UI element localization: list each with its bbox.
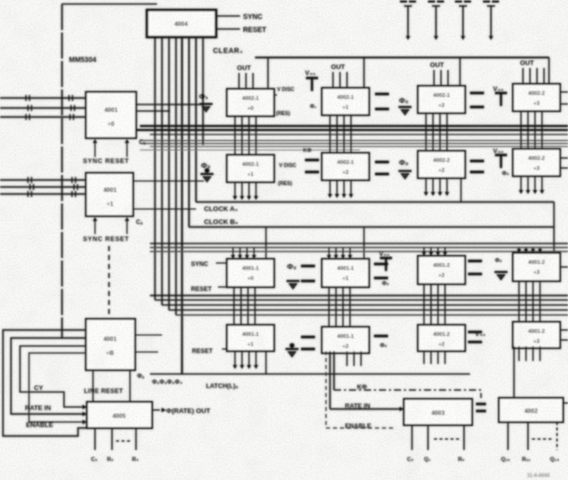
- divider U15 (4001-1 &#247;2): [322, 327, 369, 353]
- RESET output wire: [216, 28, 240, 30]
- Vdd left of U5: [493, 86, 507, 106]
- U13 right stub: [559, 266, 568, 268]
- row2 col2 output pins: [328, 180, 353, 198]
- U7 out a: [133, 180, 204, 182]
- phi2 label U3 right: [399, 96, 409, 105]
- U2 right label b: [276, 111, 290, 117]
- ground U7r2 right: [399, 171, 412, 179]
- U15 long wire a: [329, 351, 331, 409]
- row3 col3 input pins: [422, 248, 447, 257]
- U6r2 right label a: [279, 163, 297, 169]
- U9r2 right stub a: [561, 157, 568, 159]
- U14 bottom pins: [233, 351, 266, 374]
- U6 reset arrow 2: [125, 139, 129, 157]
- U9 pin labels: [91, 457, 139, 463]
- U9 pin 3: [135, 428, 137, 450]
- U2-U3 link dashes: [375, 94, 389, 109]
- bus into U7 line1: [0, 177, 86, 183]
- U17 bottom pins: [519, 346, 540, 361]
- U15 long wire b: [333, 351, 335, 390]
- KF label: [303, 148, 312, 154]
- U6 Ca label: [139, 140, 146, 146]
- rail O: [162, 304, 568, 306]
- U16-U17 dashes: [468, 332, 482, 342]
- clear rail drop to U5: [548, 58, 550, 85]
- U19 pin 1: [507, 422, 509, 450]
- output pin stub 16: [400, 2, 416, 41]
- output pin stub 13: [483, 2, 499, 41]
- counter U7: [86, 173, 133, 216]
- clear rail drop to U2: [267, 58, 269, 90]
- U18 pin 2: [427, 425, 429, 450]
- ground U14 right: [286, 343, 299, 357]
- row3 col2 input pins: [327, 248, 352, 260]
- divider U10 (4001-1 &#247;0): [227, 259, 274, 287]
- U9 pin dashes: [116, 440, 132, 442]
- RATE OUT label: [166, 408, 211, 415]
- rail B: [136, 129, 568, 131]
- clear rail drop to U4: [459, 58, 461, 87]
- U8 out b: [135, 351, 158, 353]
- pins row3 to row4 col4: [519, 281, 540, 322]
- U16 bottom pins: [424, 350, 445, 364]
- rail H-I drop to U13: [553, 202, 555, 253]
- U19 pin 3: [556, 422, 558, 450]
- CLOCK A label: [204, 206, 238, 213]
- U17 right stub a: [559, 329, 568, 331]
- ground U10 right: [287, 281, 300, 289]
- U2 right label a: [274, 87, 295, 95]
- phi2 U15 right: [380, 343, 388, 349]
- rail I: [189, 226, 554, 228]
- clear rail drop to U3: [363, 58, 365, 89]
- ENABLE label: [26, 422, 54, 429]
- U18-U19 link: [476, 404, 486, 411]
- U7 out b: [133, 208, 196, 210]
- divider U11 (4001-1 &#247;1): [322, 259, 369, 287]
- clear rail: [255, 57, 549, 59]
- phi2 U11 right: [382, 281, 390, 287]
- bus into U7 line2: [0, 184, 86, 190]
- clock bus line 3: [168, 38, 170, 310]
- clock bus line 2: [161, 38, 163, 305]
- clock bus line 1: [154, 38, 156, 300]
- divider U14 (4001-1 &#247;1): [227, 325, 274, 351]
- clock bus line 5: [181, 38, 183, 374]
- rail E: [140, 143, 568, 145]
- output pin stub 15: [428, 2, 444, 41]
- divider U3 (4002-1 &#247;1): [322, 88, 369, 115]
- RATE IN label br: [345, 403, 370, 410]
- row2 col3 output pins: [424, 178, 461, 202]
- phi2 left of U9r2: [502, 171, 510, 177]
- rail I drop to U11: [363, 227, 365, 259]
- SYNC RESET label 2: [83, 236, 129, 243]
- divider U16 (4001-2 &#247;2): [418, 325, 465, 351]
- U12-U13 dashes: [468, 261, 482, 274]
- rate counter U9: [87, 402, 152, 428]
- wire U17 to U19: [513, 346, 515, 398]
- CLEAR0 label: [213, 48, 243, 55]
- clock bus line 4: [175, 38, 177, 315]
- ground U12 right: [495, 272, 508, 280]
- LATCH label: [206, 383, 238, 390]
- chip boundary top edge: [62, 3, 157, 5]
- phi2 U12 right: [495, 258, 503, 264]
- U7r2 in dashes: [305, 160, 319, 172]
- U15 bottom pins: [347, 351, 361, 366]
- phi2 U10 right: [287, 262, 297, 271]
- rail C: [150, 134, 568, 136]
- Vdd left of U3: [305, 70, 318, 110]
- row3 col4 input pins: [517, 248, 542, 254]
- U19 pin 2: [527, 422, 529, 450]
- RESET label: [243, 27, 267, 34]
- U10-U11 dashes: [301, 266, 315, 281]
- output pin stub 14: [455, 2, 471, 41]
- clock bus line 8: [202, 38, 204, 145]
- U8r2 right dashes: [470, 161, 484, 172]
- bus into U7 line3: [0, 191, 86, 197]
- oscillator U1: [147, 10, 216, 37]
- divider U2 (4002-1 &#247;0): [227, 89, 274, 116]
- U8 pin a: [92, 370, 94, 402]
- OUT pins above U3: [331, 64, 347, 88]
- U18 pin dashes: [434, 438, 459, 440]
- feedback wire 1: [3, 330, 87, 436]
- U18 pin 3: [463, 425, 465, 450]
- clock bus line 6: [188, 38, 190, 227]
- row2 col4 output pins: [519, 176, 544, 194]
- pins row3 to row4 col1: [234, 287, 255, 325]
- divider U6 (4002-1 &#247;1): [227, 155, 274, 182]
- U17 right stub b: [559, 339, 568, 341]
- rail P: [169, 309, 568, 311]
- divider U17 (4001-2 &#247;3): [513, 322, 560, 348]
- divider U12 (4001-2 &#247;2): [418, 256, 465, 284]
- RATE IN label: [25, 405, 51, 412]
- rail L: [150, 251, 568, 253]
- bus into U6 line3: [0, 114, 86, 120]
- pins row3 to row4 col3: [424, 284, 445, 325]
- feedback wire 4: [29, 353, 87, 424]
- U9 rate out wire: [152, 408, 166, 412]
- Vdd U11 right: [379, 251, 392, 271]
- U9 pin 2: [111, 428, 113, 450]
- divider U8 (4002-2 &#247;2): [418, 151, 465, 178]
- phase labels P1-P4: [152, 380, 183, 386]
- U7 Ca label: [136, 220, 143, 226]
- U8 pin b: [129, 370, 131, 402]
- feedback wire 3: [20, 346, 87, 409]
- pins U2 to U6: [235, 116, 256, 155]
- latch U19: [499, 398, 563, 422]
- rail M: [150, 295, 568, 297]
- U11-U12 dashes: [374, 264, 388, 278]
- pins U5 to U9: [521, 111, 542, 149]
- U8 Fa label: [137, 374, 145, 380]
- U3-U4 link dashes: [470, 93, 484, 107]
- U18 pin 1: [411, 425, 413, 450]
- row2 col1 output pins: [233, 182, 258, 200]
- rail F: [150, 146, 568, 148]
- Vdd U17 left: [475, 331, 486, 338]
- U14-U15 dashes: [301, 337, 315, 349]
- U5 right stub a: [561, 91, 568, 93]
- Vdd left of U9r2: [493, 148, 507, 168]
- rail A: [140, 125, 568, 127]
- OUT pins above U2: [237, 65, 253, 89]
- counter U6: [86, 92, 136, 138]
- U15-U16 dashes: [374, 335, 388, 338]
- rail D: [140, 140, 568, 142]
- pins U4 to U8: [426, 113, 447, 151]
- U7r2 right dashes: [375, 162, 389, 174]
- rail Q: [176, 314, 568, 316]
- pins U3 to U7: [330, 115, 351, 153]
- divider U9 (4002-2 &#247;3): [513, 149, 560, 176]
- ground left of U6r2: [201, 168, 214, 182]
- dash-dot wire: [334, 390, 481, 398]
- row3 col1 input pins: [231, 248, 256, 260]
- U19 pin dashes: [532, 438, 554, 440]
- CY label: [34, 385, 44, 392]
- SYNC label: [243, 14, 262, 21]
- divider U13 (4001-2 &#247;3): [513, 253, 560, 281]
- SYNC output wire: [216, 15, 240, 17]
- rail I drop to U10: [265, 227, 267, 259]
- U6 out a: [136, 104, 204, 106]
- rail N: [155, 299, 568, 301]
- U6 reset arrow 1: [93, 139, 97, 157]
- U10 left stubs: [216, 263, 226, 287]
- RATE IN wire: [330, 407, 404, 411]
- CLOCK B label: [204, 219, 238, 226]
- pins row3 to row4 col2: [329, 287, 350, 327]
- rail R latch: [150, 373, 470, 375]
- U19 right stub: [563, 402, 568, 404]
- feedback wire 2: [11, 338, 87, 416]
- U6r2 right label b: [278, 181, 292, 187]
- SYNC RESET label 1: [83, 158, 129, 165]
- U19 pin labels: [501, 457, 560, 463]
- chip boundary left edge: [61, 4, 63, 338]
- chip part-number label: [69, 57, 96, 64]
- RESET label left of U14: [192, 348, 227, 355]
- KF label br: [357, 384, 368, 391]
- U7 reset arrow 2: [125, 217, 129, 234]
- rail J: [150, 243, 568, 245]
- bus into U6 line2: [0, 105, 86, 111]
- bus into U6 line1: [0, 95, 108, 101]
- U8 out a: [135, 334, 162, 336]
- OUT pins above U4: [430, 62, 448, 86]
- rail G: [140, 149, 360, 151]
- OUT pins above U5: [520, 60, 544, 84]
- LINE RESET label: [84, 388, 123, 395]
- chain continuation: [108, 246, 110, 319]
- U9r2 right stub b: [561, 167, 568, 169]
- U6 out b: [136, 110, 170, 112]
- latch U18: [404, 399, 472, 425]
- ENABLE label br: [345, 423, 372, 430]
- divider U7 (4002-1 &#247;2): [322, 153, 369, 180]
- figure number: [527, 473, 550, 479]
- phi2 U7r2 right: [399, 158, 409, 167]
- clock bus line 7: [195, 38, 197, 202]
- RESET label left of U10: [191, 286, 212, 293]
- U18 pin labels: [407, 457, 465, 463]
- phi2 left of U6r2: [201, 161, 211, 170]
- enable dashed wire: [326, 351, 393, 428]
- counter U8: [86, 319, 135, 370]
- U9 pin 1: [94, 428, 96, 450]
- SYNC label left of U10: [191, 261, 209, 268]
- phi1 label left of U2: [199, 92, 208, 101]
- rail H: [196, 201, 554, 203]
- divider U4 (4002-1 &#247;2): [418, 86, 465, 113]
- rail K: [150, 247, 568, 249]
- ground left of U2: [200, 104, 213, 112]
- divider U5 (4002-2 &#247;3): [513, 84, 560, 111]
- U5 right stub b: [561, 103, 568, 105]
- ground U3 right: [399, 107, 412, 115]
- U7 reset arrow 1: [93, 217, 97, 234]
